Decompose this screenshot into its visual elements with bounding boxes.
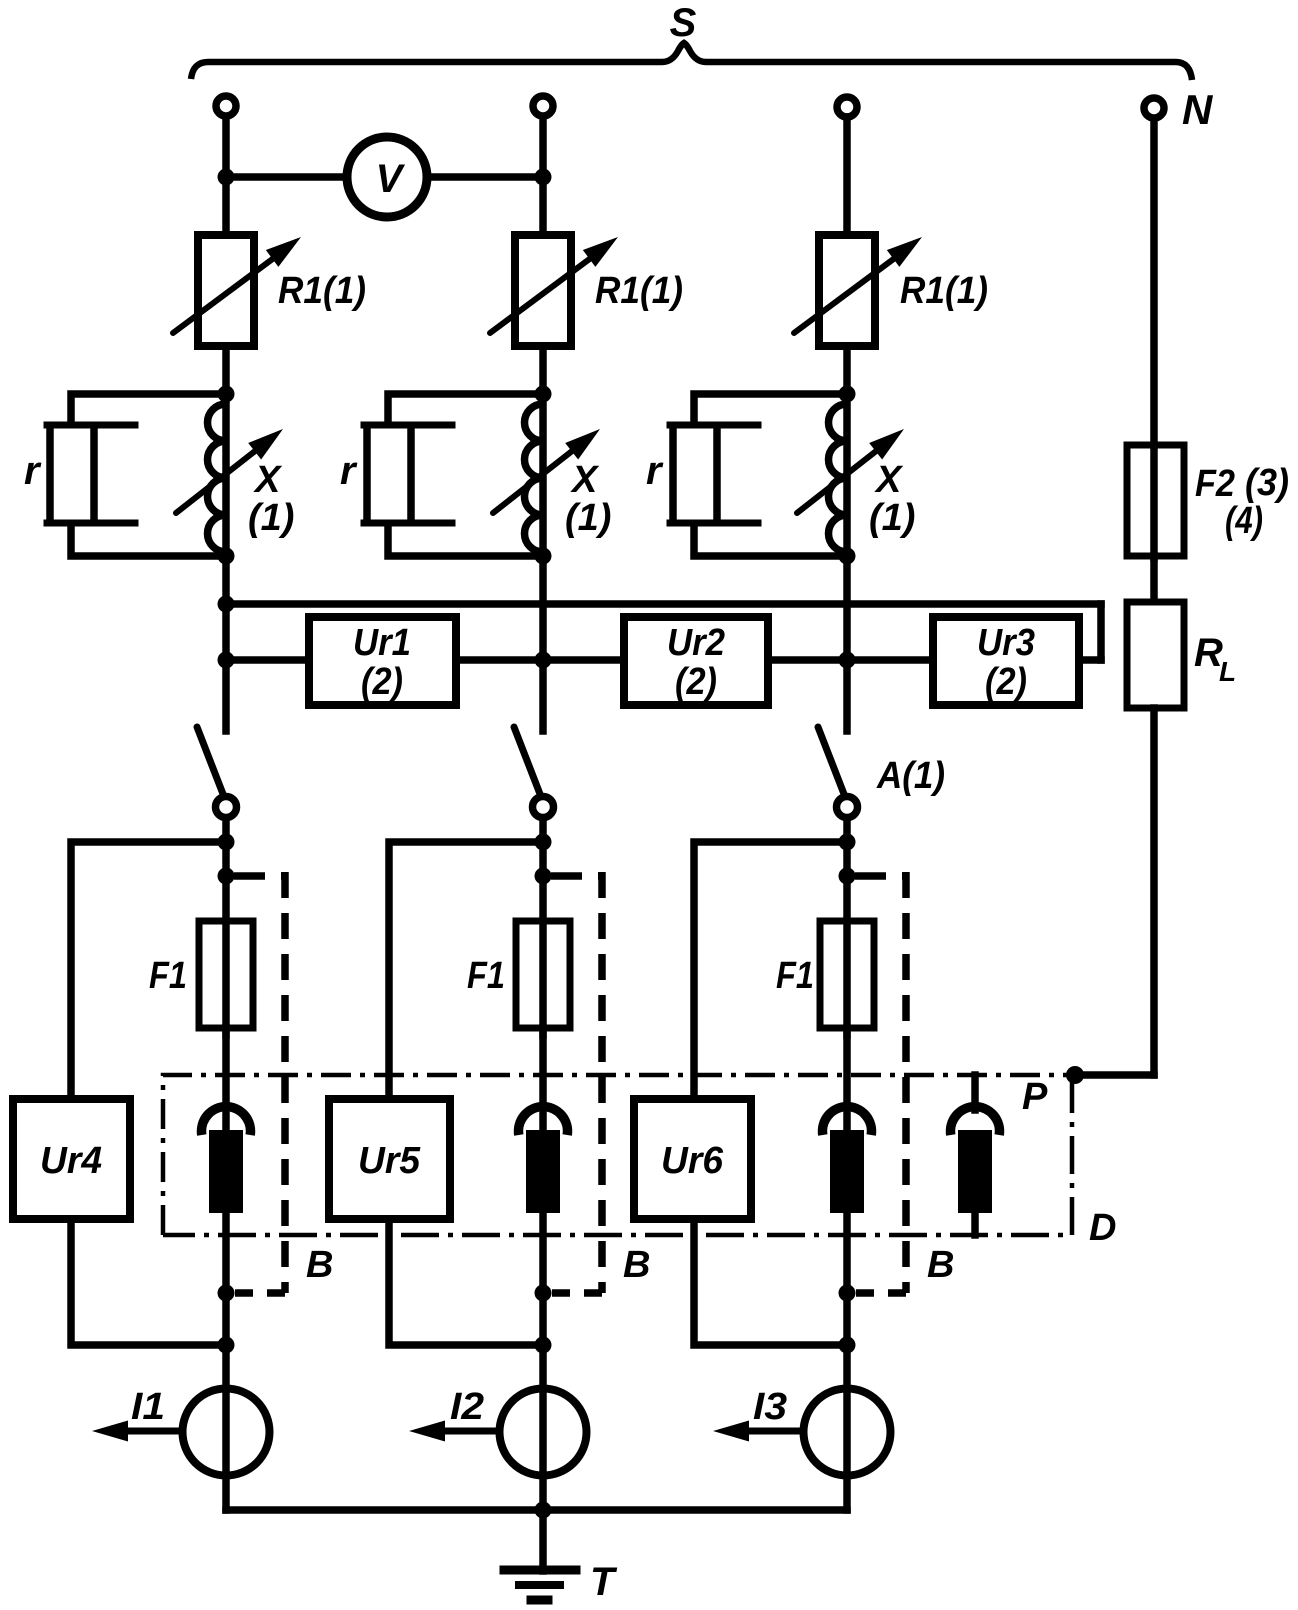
wire column to current source	[222, 1293, 230, 1510]
current source I2	[500, 1389, 587, 1476]
R1 variability arrow	[490, 246, 607, 333]
arrester dome	[951, 1107, 1000, 1135]
wire r top lead	[694, 394, 847, 425]
switch blade	[197, 727, 223, 794]
svg-text:(1): (1)	[565, 497, 611, 539]
svg-text:T: T	[590, 1560, 618, 1604]
svg-text:I2: I2	[450, 1386, 484, 1428]
svg-text:F1: F1	[467, 955, 505, 997]
node P line junction	[1066, 1066, 1084, 1084]
fuse F1 (phase at x=847)	[820, 921, 874, 1028]
wire Ur4 bottom lead	[71, 1219, 226, 1345]
svg-text:I1: I1	[131, 1386, 165, 1428]
wire below switch	[843, 818, 851, 1035]
switch blade	[514, 727, 540, 794]
wire bus lower seg2	[455, 656, 625, 664]
inductor X(1) (phase at x=226)	[208, 404, 227, 552]
box Ur4	[13, 1099, 130, 1219]
wire F1 to arrester	[222, 1028, 230, 1131]
dashed frame B (phase at x=226)	[234, 872, 285, 880]
svg-text:Ur6: Ur6	[661, 1140, 724, 1182]
voltmeter V	[347, 137, 427, 217]
arrester block	[958, 1130, 992, 1213]
resistor RL	[1127, 602, 1184, 708]
wire arrester to lower junction	[539, 1213, 547, 1296]
X variability arrow	[176, 437, 273, 513]
wire phase column upper	[222, 117, 230, 238]
dashed frame B (phase at x=847)	[855, 872, 906, 880]
fuse F1 (phase at x=543)	[516, 921, 570, 1028]
svg-text:R1(1): R1(1)	[278, 270, 366, 312]
node coil bottom	[839, 548, 856, 565]
svg-text:(2): (2)	[985, 661, 1027, 703]
arrow I1	[112, 1428, 178, 1435]
svg-text:X: X	[874, 459, 904, 501]
switch contact circle	[837, 797, 858, 818]
wire F2 to RL	[1150, 556, 1158, 606]
arrester block	[526, 1130, 560, 1213]
svg-text:B: B	[306, 1244, 333, 1286]
wire switch upper stub	[539, 660, 547, 731]
switch contact circle	[216, 797, 237, 818]
svg-text:r: r	[24, 449, 42, 493]
node Ur lead junction	[839, 1337, 856, 1354]
wire r top lead	[71, 394, 226, 425]
svg-text:(1): (1)	[248, 497, 294, 539]
wire below switch	[222, 818, 230, 1035]
current source I3	[804, 1389, 891, 1476]
wire stub from P line	[971, 1075, 979, 1110]
wire bus lower seg3	[767, 656, 934, 664]
svg-text:B: B	[623, 1244, 650, 1286]
wire voltmeter left lead	[226, 173, 348, 181]
arrester dome	[519, 1107, 568, 1135]
svg-text:(2): (2)	[361, 661, 403, 703]
node B-frame top junction	[535, 868, 552, 885]
wire switch upper stub	[843, 660, 851, 731]
ground T	[504, 1566, 576, 1575]
wire bus upper	[226, 600, 1101, 608]
wire phase column R1-to-coil	[843, 343, 851, 558]
svg-text:R1(1): R1(1)	[595, 270, 683, 312]
wire neutral column down	[1150, 708, 1158, 1075]
wire phase column through buses	[539, 556, 547, 660]
svg-text:I3: I3	[753, 1386, 787, 1428]
switch blade	[818, 727, 844, 794]
wire arrester P bottom	[971, 1213, 979, 1235]
svg-text:Ur5: Ur5	[358, 1140, 421, 1182]
wire bus lower seg4	[1078, 656, 1101, 664]
wire bus lower seg1	[226, 656, 310, 664]
svg-text:(1): (1)	[869, 497, 915, 539]
wire below switch	[539, 818, 547, 1035]
supply terminal 3	[837, 97, 857, 117]
resistor R1 (phase at x=543)	[515, 235, 571, 346]
wire phase column R1-to-coil	[222, 343, 230, 558]
svg-text:r: r	[646, 449, 664, 493]
node bus lower phase2	[535, 652, 552, 669]
supply terminal 2	[533, 96, 553, 116]
node ground junction	[535, 1502, 552, 1519]
svg-text:r: r	[340, 449, 358, 493]
svg-text:X: X	[570, 459, 600, 501]
svg-text:P: P	[1022, 1076, 1048, 1118]
current source I1	[183, 1389, 270, 1476]
r box top/bottom rails	[670, 422, 758, 429]
svg-text:F1: F1	[149, 955, 187, 997]
node bus lower phase3	[839, 652, 856, 669]
wire Ur6 bottom lead	[694, 1219, 847, 1345]
svg-text:L: L	[1219, 656, 1236, 687]
arrester dome	[823, 1107, 872, 1135]
wire Ur5 bottom lead	[389, 1219, 543, 1345]
X variability arrow	[797, 437, 894, 513]
node coil top	[839, 386, 856, 403]
resistor R1 (phase at x=847)	[819, 235, 875, 346]
node B-frame bottom junction	[839, 1285, 856, 1302]
svg-text:Ur3: Ur3	[977, 622, 1035, 664]
node coil bottom	[218, 548, 235, 565]
wire phase column through buses	[843, 556, 851, 660]
wire arrester to lower junction	[222, 1213, 230, 1296]
wire switch upper stub	[222, 660, 230, 731]
node B-frame bottom junction	[535, 1285, 552, 1302]
wire r bottom lead	[71, 523, 226, 556]
wire bus corner right	[1097, 604, 1105, 660]
node tap junction	[839, 834, 856, 851]
box Ur5	[329, 1099, 450, 1219]
wire ground stem	[539, 1510, 547, 1571]
wire tap to Ur6	[694, 842, 847, 1099]
wire tap to Ur5	[389, 842, 543, 1099]
wire phase column upper	[539, 117, 547, 238]
X variability arrow	[493, 437, 590, 513]
resistor R1 (phase at x=226)	[198, 235, 254, 346]
R1 variability arrow	[794, 246, 911, 333]
r box top/bottom rails	[364, 422, 452, 429]
node B-frame bottom junction	[218, 1285, 235, 1302]
svg-text:V: V	[376, 157, 406, 201]
svg-text:S: S	[670, 1, 697, 45]
wire column to current source	[539, 1293, 547, 1510]
node tap junction	[535, 834, 552, 851]
node B-frame top junction	[839, 868, 856, 885]
wire column to current source	[843, 1293, 851, 1510]
svg-text:(4): (4)	[1225, 500, 1263, 542]
fuse F1 (phase at x=226)	[199, 921, 253, 1028]
supply terminal 4	[1144, 98, 1164, 118]
wire F1 to arrester	[539, 1028, 547, 1131]
box Ur6	[634, 1099, 751, 1219]
svg-text:B: B	[927, 1244, 954, 1286]
svg-text:Ur2: Ur2	[667, 622, 725, 664]
node bus upper phase1	[218, 596, 235, 613]
svg-text:F1: F1	[776, 955, 814, 997]
svg-text:Ur1: Ur1	[353, 622, 411, 664]
node Ur lead junction	[218, 1337, 235, 1354]
node coil top	[218, 386, 235, 403]
node Ur lead junction	[535, 1337, 552, 1354]
supply terminal 1	[216, 96, 236, 116]
svg-text:(2): (2)	[675, 661, 717, 703]
wire neutral to P line	[1075, 1071, 1154, 1079]
box Ur1(2)	[309, 617, 456, 705]
R1 variability arrow	[173, 246, 290, 333]
arrester block	[830, 1130, 864, 1213]
svg-text:A(1): A(1)	[876, 755, 945, 797]
wire phase column through buses	[222, 556, 230, 660]
node bus lower phase1	[218, 652, 235, 669]
svg-text:D: D	[1089, 1207, 1116, 1249]
arrow I2	[429, 1428, 495, 1435]
wire neutral column from terminal to F2	[1150, 119, 1158, 558]
svg-text:R1(1): R1(1)	[900, 270, 988, 312]
svg-text:Ur4: Ur4	[40, 1140, 102, 1182]
svg-text:F2: F2	[1195, 463, 1235, 505]
node voltmeter tap phase2	[535, 169, 552, 186]
wire F1 to arrester	[843, 1028, 851, 1131]
brace S over supply terminals	[191, 43, 1192, 80]
node B-frame top junction	[218, 868, 235, 885]
node voltmeter tap phase1	[218, 169, 235, 186]
wire r bottom lead	[694, 523, 847, 556]
svg-text:N: N	[1182, 86, 1214, 133]
svg-text:X: X	[253, 459, 283, 501]
arrow I3	[733, 1428, 799, 1435]
dash-dot frame D	[163, 1075, 1075, 1235]
wire r top lead	[388, 394, 543, 425]
node tap junction	[218, 834, 235, 851]
box Ur3(2)	[933, 617, 1079, 705]
wire phase column upper	[843, 117, 851, 238]
box Ur2(2)	[624, 617, 768, 705]
wire bottom bus	[226, 1506, 847, 1514]
switch contact circle	[533, 797, 554, 818]
wire tap to Ur4	[71, 842, 226, 1099]
node coil top	[535, 386, 552, 403]
inductor X(1) (phase at x=543)	[525, 404, 544, 552]
arrester dome	[202, 1107, 251, 1135]
node coil bottom	[535, 548, 552, 565]
r box top/bottom rails	[47, 422, 135, 429]
dashed frame B (phase at x=543)	[551, 872, 602, 880]
wire r bottom lead	[388, 523, 543, 556]
fuse F2(3)(4)	[1127, 445, 1184, 556]
wire arrester to lower junction	[843, 1213, 851, 1296]
svg-text:(3): (3)	[1245, 462, 1289, 504]
wire voltmeter right lead	[426, 173, 543, 181]
wire phase column R1-to-coil	[539, 343, 547, 558]
arrester block	[209, 1130, 243, 1213]
inductor X(1) (phase at x=847)	[829, 404, 847, 552]
